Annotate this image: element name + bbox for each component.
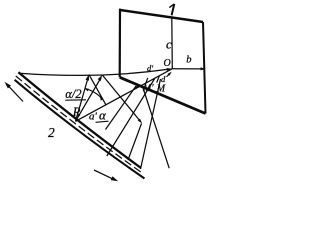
label alpha with underline <box>96 108 109 123</box>
svg-text:M′: M′ <box>142 83 154 94</box>
ray Y: short ray down-right with arrowhead pointing up-left <box>89 74 106 104</box>
svg-text:O: O <box>164 58 171 69</box>
tick M' <box>145 78 148 85</box>
label 1 (italic digit) <box>169 4 174 15</box>
mirror 2 (band of three lines) <box>15 72 145 178</box>
svg-text:M: M <box>156 84 166 95</box>
svg-text:d′: d′ <box>147 63 153 73</box>
ray from M to mirror bottom end <box>141 79 161 169</box>
svg-text:2: 2 <box>48 125 55 140</box>
arrow bottom (direction of sweep) <box>94 170 118 181</box>
ray Z2: from d-arrow end down-left past alpha label <box>106 86 137 130</box>
d label arrow to O <box>167 72 172 77</box>
svg-text:R: R <box>72 105 81 119</box>
label alpha/2 with underline <box>65 87 86 101</box>
arc alpha/2 (angle arc across R1, R2) <box>84 88 100 97</box>
d' line (from mirror end to O) with arrowhead at O <box>20 68 172 75</box>
ray X: from d'-line down-right, arrowhead at end <box>102 75 142 124</box>
svg-text:c: c <box>166 36 172 51</box>
svg-text:α/2: α/2 <box>65 87 81 101</box>
c line (vertical from O to top edge) <box>171 18 174 68</box>
ray R2: R up to d'-line, arrowhead up <box>76 75 103 121</box>
ray R1: R up to d'-line, arrowhead up <box>76 74 90 121</box>
tick M <box>157 76 160 83</box>
ray X continuation to mirror <box>128 124 142 161</box>
ray W: from screen corner down to mirror end <box>143 87 170 168</box>
b line (from O to right edge, arrow at right) <box>172 67 206 70</box>
ray Z: from M down-left across mirror <box>107 78 155 156</box>
arrow top-left (direction of sweep) <box>5 82 24 102</box>
svg-text:b: b <box>186 55 191 66</box>
screen 1 (plane) <box>120 9 206 114</box>
svg-text:d: d <box>161 74 166 84</box>
svg-text:α: α <box>99 108 107 123</box>
svg-text:a′: a′ <box>89 111 98 123</box>
ray R-O (through M' and M) <box>76 69 173 122</box>
arrowhead on d segment pointing down-left <box>134 85 139 89</box>
